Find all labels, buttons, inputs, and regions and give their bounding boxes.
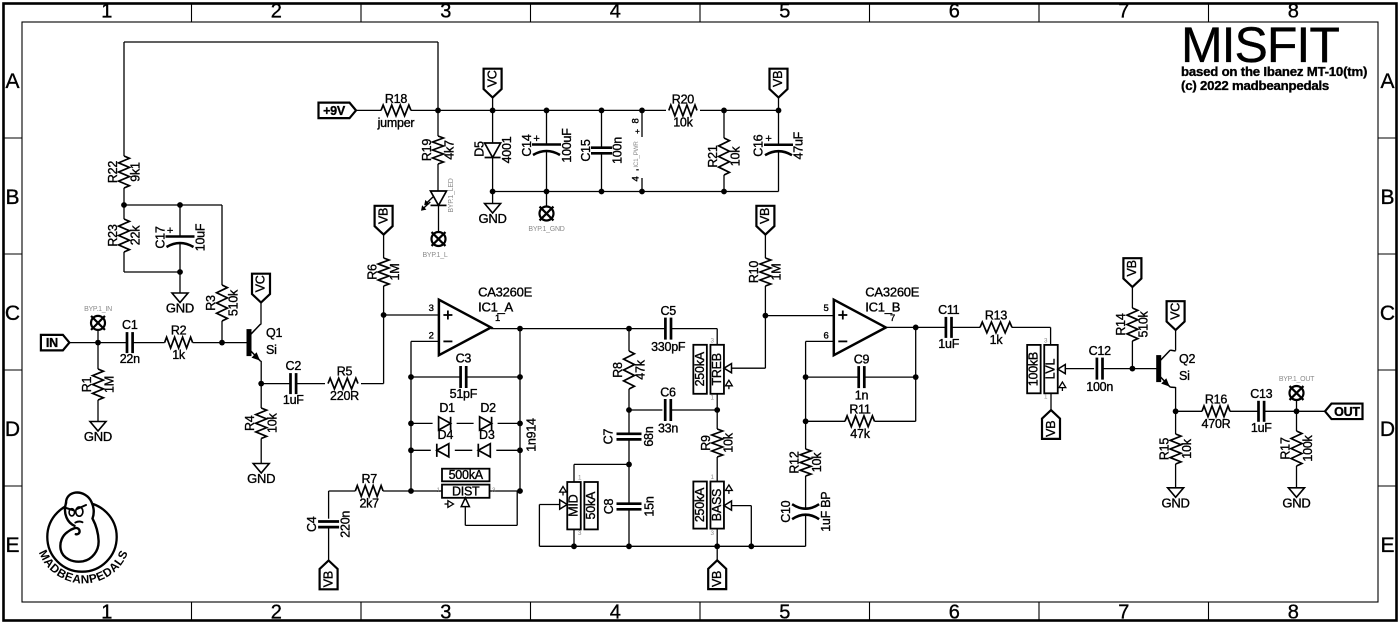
svg-text:33n: 33n: [658, 422, 678, 436]
svg-text:LVL: LVL: [1044, 359, 1058, 380]
svg-text:Q1: Q1: [266, 326, 282, 340]
svg-text:R8: R8: [611, 362, 625, 378]
svg-text:6: 6: [824, 331, 829, 342]
svg-text:22n: 22n: [120, 352, 140, 366]
svg-text:C: C: [5, 302, 20, 325]
svg-text:1: 1: [710, 474, 714, 481]
svg-text:5: 5: [824, 303, 829, 314]
svg-text:A: A: [5, 70, 19, 93]
svg-text:R2: R2: [171, 324, 187, 338]
svg-text:7: 7: [890, 313, 895, 324]
svg-text:10k: 10k: [673, 116, 693, 130]
svg-text:VB: VB: [1125, 260, 1139, 276]
svg-text:220n: 220n: [338, 511, 352, 538]
svg-text:C10: C10: [779, 500, 793, 522]
svg-text:10k: 10k: [265, 413, 279, 433]
svg-text:330pF: 330pF: [651, 340, 686, 354]
svg-text:1uF: 1uF: [1251, 421, 1272, 435]
svg-text:3: 3: [710, 530, 714, 537]
svg-text:510k: 510k: [1137, 310, 1151, 337]
svg-text:B: B: [5, 186, 19, 209]
svg-text:C12: C12: [1089, 344, 1111, 358]
svg-text:1k: 1k: [172, 348, 186, 362]
svg-text:2k7: 2k7: [359, 497, 379, 511]
svg-text:D: D: [1380, 418, 1395, 441]
svg-text:R17: R17: [1278, 437, 1292, 459]
svg-text:100kB: 100kB: [1027, 352, 1041, 386]
svg-text:VB: VB: [321, 571, 335, 587]
svg-text:R7: R7: [361, 472, 377, 486]
svg-text:100n: 100n: [610, 137, 624, 164]
svg-text:10uF: 10uF: [193, 223, 207, 251]
svg-text:2: 2: [429, 331, 434, 342]
svg-text:100n: 100n: [1086, 380, 1113, 394]
svg-text:C17: C17: [153, 226, 167, 248]
svg-text:MID: MID: [567, 494, 581, 516]
svg-text:1uF: 1uF: [938, 337, 959, 351]
svg-text:1n: 1n: [855, 389, 869, 403]
svg-text:220R: 220R: [330, 389, 359, 403]
svg-text:R19: R19: [420, 139, 434, 161]
svg-text:OUT: OUT: [1334, 405, 1360, 419]
svg-text:R22: R22: [106, 161, 120, 183]
svg-text:1M: 1M: [770, 264, 784, 281]
svg-text:Si: Si: [1179, 369, 1190, 383]
svg-text:IN: IN: [46, 336, 58, 350]
svg-text:VB: VB: [758, 208, 772, 224]
svg-text:C15: C15: [579, 139, 593, 161]
svg-text:4k7: 4k7: [442, 140, 456, 160]
svg-text:47uF: 47uF: [792, 131, 806, 159]
svg-text:3: 3: [440, 602, 451, 624]
svg-text:TREB: TREB: [710, 353, 724, 385]
svg-text:CA3260E: CA3260E: [865, 285, 919, 300]
svg-text:51pF: 51pF: [450, 387, 478, 401]
svg-text:500kA: 500kA: [449, 468, 484, 482]
svg-text:GND: GND: [247, 471, 275, 486]
svg-text:3: 3: [440, 1, 451, 23]
svg-text:R14: R14: [1114, 313, 1128, 335]
svg-text:Si: Si: [266, 343, 277, 357]
svg-text:1M: 1M: [102, 376, 116, 393]
svg-text:+: +: [765, 133, 771, 145]
svg-text:IC1_B: IC1_B: [865, 300, 900, 315]
svg-text:3: 3: [578, 530, 582, 537]
svg-text:47k: 47k: [850, 427, 870, 441]
svg-text:E: E: [1380, 534, 1394, 557]
svg-text:GND: GND: [166, 301, 194, 316]
svg-text:250kA: 250kA: [693, 487, 707, 522]
svg-text:A: A: [1380, 70, 1394, 93]
svg-text:GND: GND: [479, 211, 507, 226]
svg-text:+: +: [635, 127, 640, 136]
svg-text:C16: C16: [752, 134, 766, 156]
svg-text:1uF: 1uF: [283, 393, 304, 407]
svg-text:50kA: 50kA: [584, 491, 598, 519]
svg-text:47k: 47k: [633, 359, 647, 379]
svg-text:D3: D3: [479, 428, 495, 442]
svg-text:1k: 1k: [990, 333, 1004, 347]
svg-text:8: 8: [630, 118, 641, 123]
svg-text:C1: C1: [122, 318, 138, 332]
svg-text:250kA: 250kA: [693, 351, 707, 386]
svg-text:1uF BP: 1uF BP: [819, 492, 833, 532]
svg-text:3: 3: [1044, 337, 1048, 344]
svg-text:3: 3: [710, 337, 714, 344]
svg-text:7: 7: [1118, 602, 1129, 624]
svg-text:1: 1: [436, 487, 440, 494]
svg-text:BYP.1_OUT: BYP.1_OUT: [1279, 376, 1315, 383]
svg-text:VB: VB: [376, 208, 390, 224]
svg-text:+: +: [533, 133, 539, 145]
svg-text:R4: R4: [243, 415, 257, 431]
svg-text:8: 8: [1288, 602, 1299, 624]
svg-text:9k1: 9k1: [128, 162, 142, 182]
svg-text:R23: R23: [106, 224, 120, 246]
svg-text:C3: C3: [456, 352, 472, 366]
svg-text:VC: VC: [1168, 303, 1182, 320]
svg-text:R16: R16: [1205, 392, 1227, 406]
svg-text:R18: R18: [385, 92, 407, 106]
svg-text:GND: GND: [1282, 495, 1310, 510]
svg-text:1n914: 1n914: [524, 418, 538, 452]
svg-text:D5: D5: [472, 141, 486, 157]
svg-text:4: 4: [630, 176, 641, 181]
svg-text:C: C: [1380, 302, 1395, 325]
svg-text:R10: R10: [747, 261, 761, 283]
svg-text:4: 4: [610, 1, 621, 23]
svg-text:C4: C4: [305, 516, 319, 532]
svg-text:R21: R21: [706, 145, 720, 167]
svg-text:C14: C14: [520, 134, 534, 156]
svg-text:R15: R15: [1157, 438, 1171, 460]
svg-text:DIST: DIST: [452, 485, 480, 499]
svg-text:22k: 22k: [128, 225, 142, 245]
svg-text:1: 1: [101, 1, 112, 23]
svg-text:D4: D4: [438, 428, 454, 442]
svg-text:B: B: [1380, 186, 1394, 209]
svg-text:GND: GND: [1162, 495, 1190, 510]
svg-text:VB: VB: [710, 571, 724, 587]
svg-text:+9V: +9V: [323, 104, 346, 118]
svg-text:2: 2: [271, 602, 282, 624]
svg-text:BYP.1_L: BYP.1_L: [423, 252, 448, 259]
svg-text:470R: 470R: [1202, 417, 1231, 431]
svg-text:1M: 1M: [388, 264, 402, 281]
svg-text:10k: 10k: [721, 432, 735, 452]
svg-text:2: 2: [271, 1, 282, 23]
svg-text:6: 6: [949, 602, 960, 624]
svg-text:R9: R9: [699, 435, 713, 451]
svg-text:R3: R3: [204, 295, 218, 311]
svg-text:CA3260E: CA3260E: [478, 285, 532, 300]
svg-text:IC1_A: IC1_A: [478, 300, 513, 315]
svg-text:1: 1: [710, 395, 714, 402]
svg-text:1: 1: [1044, 394, 1048, 401]
svg-text:1: 1: [578, 475, 582, 482]
svg-text:VB: VB: [1044, 421, 1058, 437]
svg-text:R11: R11: [849, 402, 871, 416]
svg-text:1: 1: [101, 602, 112, 624]
svg-text:C2: C2: [286, 359, 302, 373]
svg-text:4001: 4001: [500, 136, 514, 163]
svg-text:R5: R5: [337, 365, 353, 379]
svg-text:R12: R12: [787, 451, 801, 473]
svg-text:C11: C11: [938, 303, 960, 317]
svg-text:E: E: [5, 534, 19, 557]
svg-text:10k: 10k: [810, 452, 824, 472]
svg-text:5: 5: [779, 1, 790, 23]
svg-text:10k: 10k: [1180, 438, 1194, 458]
svg-text:3: 3: [492, 487, 496, 494]
svg-text:BYP.1_IN: BYP.1_IN: [84, 306, 112, 313]
svg-text:C7: C7: [602, 429, 616, 445]
svg-text:R20: R20: [672, 92, 694, 106]
svg-text:4: 4: [610, 602, 621, 624]
svg-text:C9: C9: [854, 353, 870, 367]
svg-text:VB: VB: [771, 71, 785, 87]
svg-text:510k: 510k: [226, 289, 240, 316]
svg-text:3: 3: [429, 303, 434, 314]
svg-text:10k: 10k: [728, 146, 742, 166]
svg-text:D: D: [5, 418, 20, 441]
svg-text:R13: R13: [985, 308, 1007, 322]
svg-text:GND: GND: [84, 429, 112, 444]
svg-text:R6: R6: [365, 264, 379, 280]
svg-text:1: 1: [495, 313, 500, 324]
svg-text:jumper: jumper: [377, 116, 415, 130]
svg-text:6: 6: [949, 1, 960, 23]
svg-text:(c) 2022 madbeanpedals: (c) 2022 madbeanpedals: [1181, 78, 1329, 93]
svg-text:C5: C5: [660, 304, 676, 318]
svg-text:68n: 68n: [642, 426, 656, 446]
svg-text:100k: 100k: [1301, 434, 1315, 461]
svg-text:Q2: Q2: [1179, 352, 1195, 366]
svg-text:BASS: BASS: [710, 489, 724, 521]
svg-text:C6: C6: [660, 386, 676, 400]
svg-text:R1: R1: [80, 376, 94, 392]
svg-text:VC: VC: [485, 70, 499, 87]
svg-text:-: -: [636, 165, 639, 175]
svg-text:7: 7: [1118, 1, 1129, 23]
svg-text:BYP.1_LED: BYP.1_LED: [448, 178, 455, 212]
svg-text:BYP.1_GND: BYP.1_GND: [528, 226, 564, 233]
svg-text:based on the Ibanez MT-10(tm): based on the Ibanez MT-10(tm): [1181, 64, 1367, 79]
svg-text:+: +: [167, 225, 173, 237]
svg-text:C8: C8: [602, 498, 616, 514]
svg-text:15n: 15n: [642, 496, 656, 516]
svg-text:D1: D1: [439, 401, 455, 415]
svg-text:100uF: 100uF: [560, 128, 574, 163]
svg-text:D2: D2: [480, 401, 496, 415]
svg-text:C13: C13: [1250, 387, 1272, 401]
svg-text:5: 5: [779, 602, 790, 624]
svg-text:VC: VC: [254, 275, 268, 292]
